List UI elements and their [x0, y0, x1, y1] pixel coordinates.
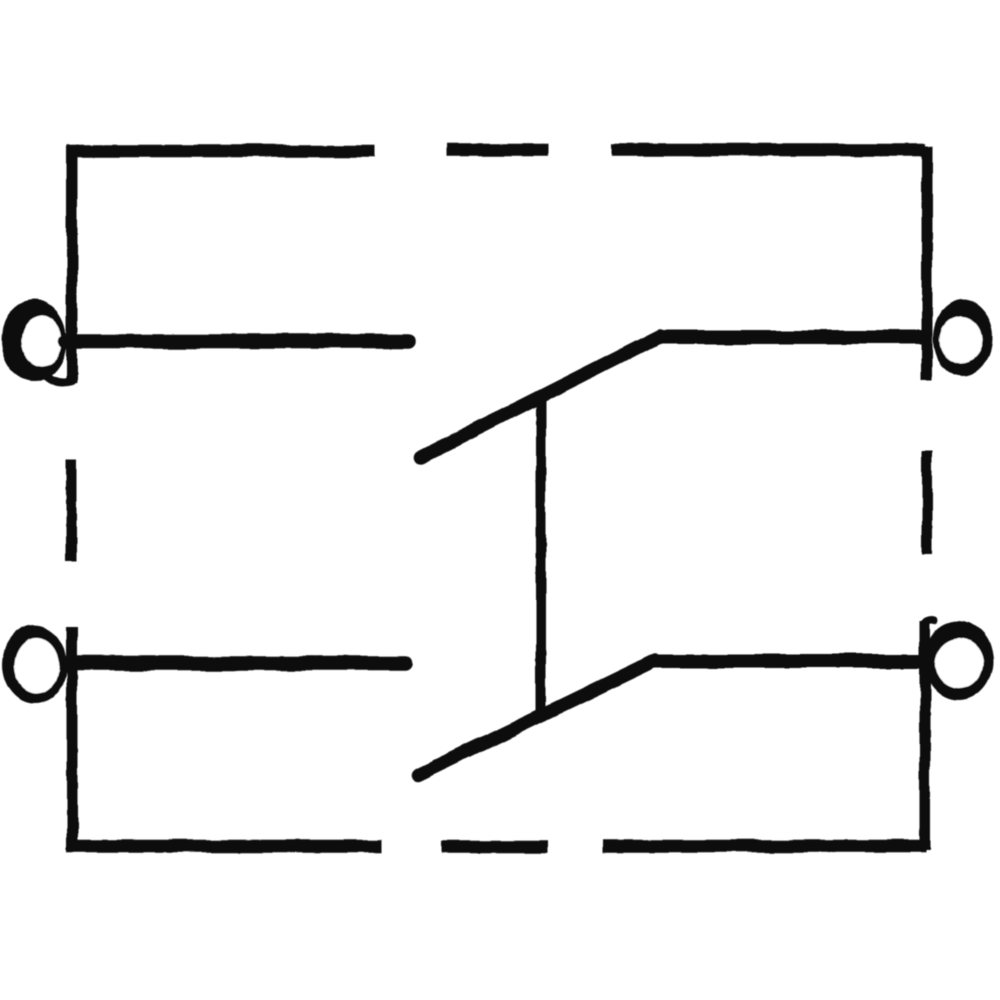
switch arm, lower pole (open contact blade) — [418, 660, 656, 775]
wire: housing dashed outline, bottom rail right dash — [603, 840, 926, 853]
wire: housing dashed outline, bottom rail middle dash — [441, 841, 548, 854]
wire: top-right wire from switch arm corner to right pin — [657, 330, 930, 344]
wire: housing outline, right vertical lower segment — [920, 622, 931, 850]
wire: pen overshoot tail at bottom of top-left terminal ring — [47, 376, 72, 382]
wire: bottom-left fixed contact from pin to open gap — [66, 656, 405, 671]
terminal ring, bottom right pin — [924, 621, 993, 701]
wire: housing outline, right vertical upper segment — [922, 146, 933, 381]
wire: housing dashed outline, bottom rail left dash — [67, 840, 381, 853]
wire: bottom-right wire from switch arm corner to right pin — [653, 654, 928, 668]
wire: pen overshoot hook at top of bottom-right terminal ring — [923, 621, 935, 626]
wire: housing dashed outline, top rail middle dash — [447, 144, 548, 157]
terminal ring, bottom left pin — [2, 625, 67, 704]
switch arm, upper pole (open contact blade) — [421, 336, 660, 457]
wire: housing outline, left vertical lower segment — [67, 626, 78, 850]
wire: housing dashed outline, top rail right dash — [612, 144, 926, 157]
terminal ring, top right pin — [933, 299, 993, 377]
wire: housing outline, left vertical upper segment — [67, 146, 78, 383]
wire: top-left fixed contact from pin to open gap — [66, 334, 409, 349]
wire: housing dashed outline, left vertical dash — [66, 460, 77, 561]
wire: vertical linkage bar coupling the two switch arms — [536, 401, 546, 721]
wire: housing dashed outline, top rail left dash — [67, 145, 375, 158]
terminal ring, top left pin — [1, 300, 67, 381]
wire: housing dashed outline, right vertical dash — [922, 451, 932, 555]
